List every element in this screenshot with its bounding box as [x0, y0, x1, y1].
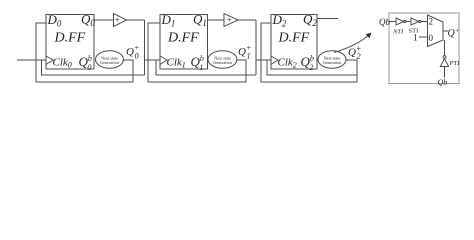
svg-text:Generation: Generation — [323, 60, 343, 65]
svg-text:D.FF: D.FF — [278, 31, 310, 46]
svg-text:Q+1: Q+1 — [238, 44, 251, 61]
svg-text:2: 2 — [429, 17, 434, 27]
svg-text:Qb: Qb — [379, 17, 390, 27]
svg-text:Q2: Q2 — [303, 12, 317, 29]
svg-text:Generation: Generation — [213, 60, 233, 65]
svg-text:Q+2: Q+2 — [348, 44, 361, 61]
svg-text:D.FF: D.FF — [54, 31, 86, 46]
svg-text:NTI: NTI — [392, 29, 404, 36]
svg-text:Clk0: Clk0 — [53, 57, 72, 70]
svg-text:Qb: Qb — [438, 78, 448, 87]
svg-text:+: + — [227, 15, 232, 25]
svg-text:Q0: Q0 — [81, 12, 95, 29]
svg-text:Generation: Generation — [100, 60, 120, 65]
svg-text:Clk1: Clk1 — [167, 57, 186, 70]
svg-text:0: 0 — [429, 33, 434, 43]
svg-text:+: + — [115, 15, 120, 25]
svg-text:PTI: PTI — [449, 60, 461, 67]
svg-text:Q+: Q+ — [448, 27, 460, 40]
svg-text:1: 1 — [413, 33, 418, 43]
svg-text:D.FF: D.FF — [167, 31, 199, 46]
svg-text:Clk2: Clk2 — [278, 57, 297, 70]
svg-text:Q+0: Q+0 — [126, 44, 139, 61]
svg-text:Q1: Q1 — [193, 12, 207, 29]
